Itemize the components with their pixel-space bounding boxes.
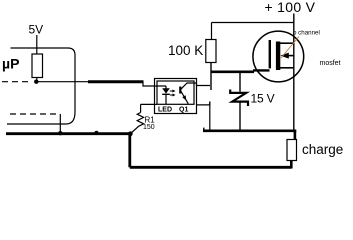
wire gate thick	[211, 71, 254, 74]
wire rail left stub	[203, 128, 205, 131]
svg-text:15 V: 15 V	[251, 92, 275, 106]
mosfet circle	[253, 31, 304, 82]
zener top lead	[239, 73, 241, 92]
LED cathode vertical	[165, 94, 167, 104]
resistor charge body	[287, 140, 297, 161]
svg-text:5V: 5V	[29, 23, 44, 37]
resistor pull-up (5V)	[32, 54, 43, 78]
svg-text:R1: R1	[145, 115, 156, 124]
optocoupler inner box	[157, 81, 194, 104]
wire output 1 thin segment	[36, 81, 88, 83]
zener diode symbol	[230, 90, 248, 107]
wire collector jog at box edge	[197, 83, 211, 86]
node junction dot on bus	[95, 131, 99, 135]
wire bottom return	[130, 166, 291, 169]
mosfet channel bar	[276, 42, 280, 71]
wire ground bus left	[6, 132, 131, 135]
wire output 2 down to bus	[59, 114, 61, 134]
wire dashed uP output 2	[10, 113, 59, 115]
zener bottom lead	[239, 103, 241, 132]
wire mosfet right vertical	[293, 14, 295, 131]
wire drain rail	[203, 130, 296, 133]
svg-text:150: 150	[143, 124, 155, 131]
node junction bus corner R1	[128, 131, 133, 136]
svg-text:charge: charge	[302, 142, 343, 157]
wire dashed uP output 1	[2, 81, 31, 83]
wire jog down to LED anode	[143, 82, 166, 86]
light arrow 2	[170, 94, 174, 96]
resistor R1 zigzag	[131, 113, 144, 134]
resistor 100K body	[206, 40, 216, 63]
wire output 1 thick segment	[88, 80, 144, 83]
microprocessor block uP rounded boundary	[7, 48, 75, 124]
LED triangle	[162, 88, 170, 93]
mosfet source stub bottom	[280, 67, 294, 69]
optocoupler outer box	[155, 79, 197, 114]
annotation leader line	[281, 37, 299, 59]
wire emitter down to rail	[209, 102, 211, 130]
wire top rail from +100V	[212, 22, 294, 24]
wire corner down to 100K	[211, 23, 213, 40]
wire resistor bottom lead	[36, 78, 38, 82]
wire 5V supply to resistor	[36, 35, 38, 54]
wire emitter exit right	[197, 102, 210, 105]
svg-text:µP: µP	[2, 56, 19, 72]
light arrow 1	[170, 90, 174, 92]
wire gate lead inside circle	[253, 69, 270, 71]
svg-text:mosfet: mosfet	[320, 60, 341, 67]
mosfet body arrow	[280, 53, 288, 59]
svg-text:LED: LED	[158, 107, 172, 114]
svg-text:Q1: Q1	[179, 107, 188, 114]
mosfet drain stub top	[280, 42, 294, 44]
mosfet gate bar	[269, 40, 271, 68]
svg-text:+ 100 V: + 100 V	[265, 0, 316, 15]
LED cathode bar	[162, 93, 170, 95]
wire rail corner down to charge	[294, 131, 297, 140]
wire 100K bottom lead	[210, 63, 212, 91]
wire R1 top lead	[140, 104, 142, 112]
LED anode vertical	[165, 86, 167, 89]
phototransistor emitter line with arrow	[181, 91, 189, 104]
wire bus corner down	[128, 134, 131, 168]
node junction uP output 1	[34, 80, 38, 84]
node junction output 2 on bus	[58, 131, 62, 135]
phototransistor collector line	[181, 83, 197, 89]
wire charge bottom lead	[290, 161, 293, 169]
svg-text:p channel: p channel	[293, 30, 320, 37]
wire emitter rail exits left to R1	[141, 103, 157, 105]
svg-text:100 K: 100 K	[168, 43, 203, 58]
phototransistor Q1 base bar	[179, 87, 181, 94]
